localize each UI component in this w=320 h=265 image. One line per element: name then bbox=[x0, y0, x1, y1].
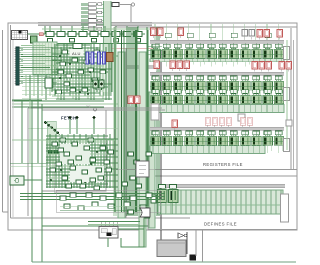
svg-text:ALU: ALU bbox=[72, 51, 81, 56]
svg-text:reg: reg bbox=[86, 104, 91, 108]
svg-text:DEFINES FILE: DEFINES FILE bbox=[204, 222, 237, 227]
svg-text:FETCH: FETCH bbox=[61, 116, 76, 121]
svg-text:REGISTERS FILE: REGISTERS FILE bbox=[203, 162, 243, 167]
